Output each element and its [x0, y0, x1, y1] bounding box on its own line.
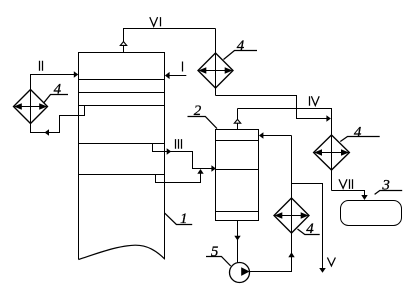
wire: left pumparound draw-off (column to heat exchanger) — [31, 106, 85, 136]
label IV — [310, 96, 320, 106]
wire: condenser outlet down and right to junction — [216, 96, 331, 122]
vessel 2 (stripper shell) — [216, 130, 259, 221]
heat exchanger 4 (right) diamond — [314, 135, 350, 170]
wire IV: line to right heat exchanger — [238, 109, 332, 136]
label III — [176, 139, 182, 149]
tank 3 (horizontal drum) — [341, 201, 402, 226]
svg-text:3: 3 — [381, 177, 390, 193]
wire II: heat exchanger return to column — [31, 71, 79, 89]
wire: recycle into vessel 2 right side — [259, 132, 292, 138]
label 3 text — [381, 177, 390, 193]
heat exchanger 4 (top) diamond — [198, 53, 233, 88]
label VII — [339, 179, 353, 189]
label 5 leader — [206, 257, 231, 267]
label V — [327, 258, 335, 266]
wire V: product line down with arrow — [292, 184, 326, 273]
label 2 text — [194, 103, 202, 119]
heat exchanger 4 (left) internal double arrow — [14, 103, 47, 109]
hollow arrow on overhead riser — [120, 42, 126, 46]
heat exchanger 4 (top) internal double arrow — [198, 67, 232, 73]
label VI — [150, 17, 161, 26]
label 5 text — [211, 244, 219, 260]
heat exchanger 4 (right) internal double arrow — [314, 149, 349, 155]
svg-text:4: 4 — [306, 221, 314, 237]
heat exchanger 4 (bottom) internal double arrow — [274, 212, 308, 218]
wire: pump discharge up through bottom heat exchanger — [250, 184, 295, 272]
wire: lower side draw joining stream III — [156, 169, 204, 183]
label 4 (bottom) leader — [298, 229, 320, 235]
pump 5 (circle with flow triangle) — [230, 263, 250, 283]
label 4 (bottom) text — [306, 221, 314, 237]
heat exchanger 4 (top) vertical process line — [215, 29, 217, 96]
label 1 text — [180, 211, 188, 227]
svg-text:5: 5 — [211, 244, 219, 260]
wire I: feed into column (right side) — [165, 72, 186, 79]
svg-text:4: 4 — [237, 38, 245, 54]
wire VI: column overhead vapor line — [124, 29, 216, 53]
hollow arrow above vessel 2 — [234, 119, 240, 123]
heat exchanger 4 (left) vertical process line — [30, 91, 32, 124]
label 4 (left) text — [54, 82, 62, 98]
label 4 (top) text — [237, 38, 245, 54]
label I — [182, 62, 184, 72]
label 4 (right) text — [354, 125, 362, 141]
label 1 leader — [165, 213, 193, 225]
column 1 (main column shell) — [79, 53, 165, 260]
svg-text:1: 1 — [180, 211, 188, 227]
vessel 2 tray lines — [216, 141, 259, 212]
heat exchanger 4 (bottom) diamond — [274, 198, 309, 233]
heat exchanger 4 (right) vertical process line — [331, 135, 333, 191]
wire: vessel 2 bottoms to pump 5 — [234, 221, 240, 263]
wire: riser into vessel 2 — [237, 109, 239, 130]
label 4 (top) leader — [224, 51, 258, 60]
wire III: side draw from column to vessel 2 — [153, 144, 216, 172]
heat exchanger 4 (left) diamond — [14, 90, 48, 124]
wire VII: to reflux drum 3 — [332, 191, 368, 201]
svg-text:4: 4 — [54, 82, 62, 98]
label 2 leader — [188, 117, 218, 129]
label 3 leader — [375, 191, 403, 195]
wire: vertical line right of vessel 2 — [291, 136, 293, 184]
column 1 tray lines — [79, 80, 165, 175]
svg-text:4: 4 — [354, 125, 362, 141]
label 4 (left) leader — [44, 95, 68, 103]
label II — [40, 61, 43, 71]
label 4 (right) leader — [340, 137, 379, 142]
